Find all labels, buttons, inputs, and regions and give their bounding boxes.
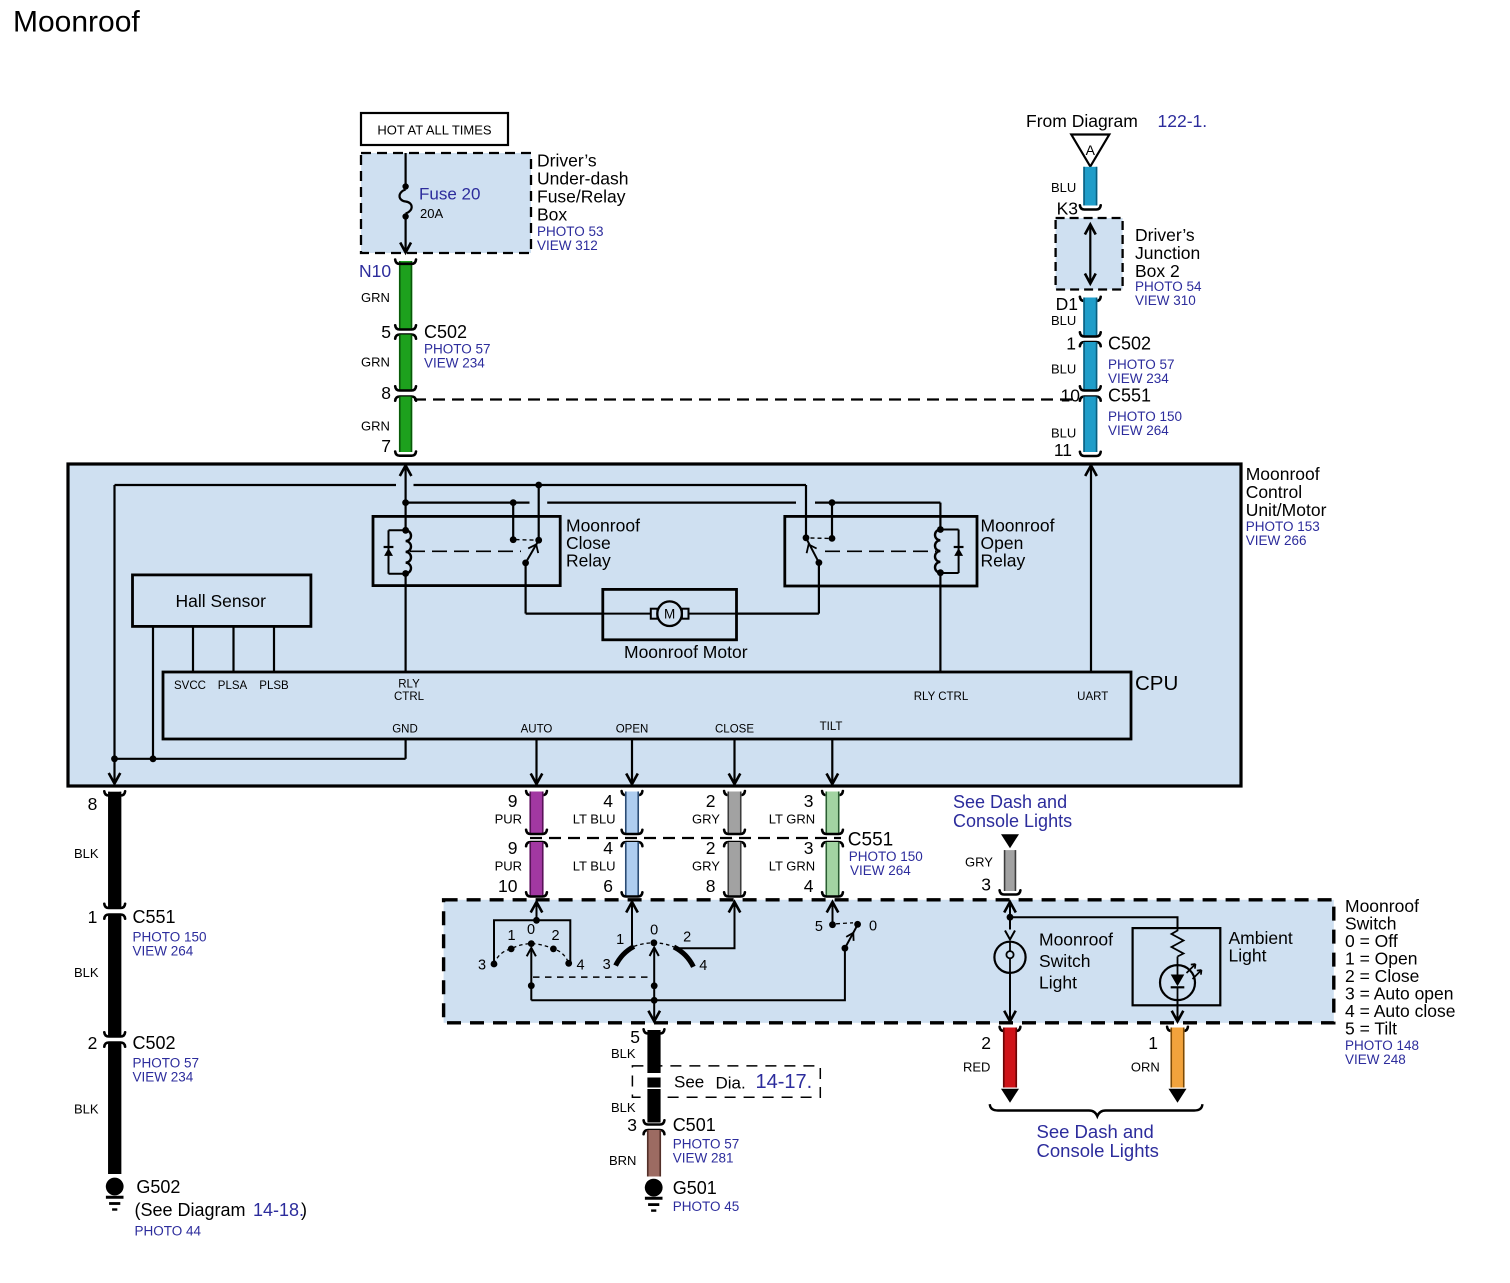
svg-text:BLU: BLU (1051, 362, 1076, 377)
svg-text:Moonroof: Moonroof (1039, 930, 1113, 950)
svg-text:8: 8 (88, 794, 98, 814)
svg-text:VIEW 234: VIEW 234 (133, 1070, 194, 1085)
svg-text:PUR: PUR (495, 812, 522, 827)
Ambient Light label (1229, 928, 1293, 966)
ground G502 label (135, 1177, 308, 1239)
svg-text:UART: UART (1077, 691, 1108, 703)
ground G501 (645, 1179, 663, 1197)
close relay mechanical linkage (dashed) (410, 550, 521, 552)
switch TILT arrow (pin 4 entry) (827, 902, 839, 925)
switch light exit wire to pin 2 (1004, 973, 1016, 1021)
svg-text:5 = Tilt: 5 = Tilt (1345, 1019, 1397, 1039)
ground G502 (106, 1178, 124, 1196)
open relay common pole wire (803, 485, 810, 541)
hall sensor SVCC pin wire (192, 626, 194, 672)
svg-text:PHOTO 57: PHOTO 57 (1108, 357, 1175, 372)
svg-text:9: 9 (508, 791, 518, 811)
open relay coil (935, 526, 944, 576)
svg-text:0: 0 (650, 923, 658, 939)
See Dia 14-17 label (674, 1071, 812, 1093)
switch AUTO entry arrow (pin 10 entry) (531, 902, 543, 920)
fuse F20 symbol (400, 153, 412, 253)
svg-text:PHOTO 54: PHOTO 54 (1135, 279, 1202, 294)
hall sensor PLSA pin wire (232, 626, 234, 672)
wire BLK segment below switch (644, 1029, 665, 1073)
svg-text:4: 4 (603, 791, 613, 811)
svg-text:BLK: BLK (611, 1100, 636, 1115)
connector C551 dashed link line to pin 10 (414, 398, 1080, 400)
wire GRN segment 8-7 (395, 397, 416, 456)
node: close relay NO tap on wire B (510, 499, 517, 506)
svg-text:OPEN: OPEN (616, 724, 649, 736)
svg-text:C551: C551 (133, 907, 176, 927)
svg-text:Unit/Motor: Unit/Motor (1246, 500, 1327, 520)
wire from open relay blade to motor (737, 563, 819, 614)
ambient light emission arrows (1187, 964, 1202, 979)
svg-text:BRN: BRN (609, 1153, 636, 1168)
Moonroof Control Unit/Motor box (68, 464, 1241, 786)
svg-text:4: 4 (699, 958, 707, 974)
open relay NO contact wire (829, 503, 836, 542)
svg-text:C502: C502 (1108, 334, 1151, 354)
wire GRY (switch light feed) (1000, 850, 1021, 894)
svg-text:): ) (301, 1200, 307, 1220)
svg-text:Relay: Relay (566, 551, 611, 571)
wire BLK segment 2-G502 (108, 1043, 121, 1175)
svg-text:RLY CTRL: RLY CTRL (914, 691, 969, 703)
svg-text:Moonroof: Moonroof (1246, 464, 1320, 484)
wire BLU from triangle to K3 (1080, 167, 1101, 210)
svg-text:N10: N10 (359, 261, 391, 281)
svg-text:Fuse/Relay: Fuse/Relay (537, 187, 626, 207)
svg-text:14-18.: 14-18. (253, 1200, 304, 1220)
svg-text:6: 6 (603, 876, 613, 896)
switch CLOSE wire to pin 8 entry (674, 902, 740, 948)
svg-text:Box: Box (537, 205, 567, 225)
wire BLK segment 1-2 (104, 915, 125, 1037)
svg-text:VIEW 312: VIEW 312 (537, 238, 598, 253)
wire B power feed (horizontal) (406, 502, 941, 504)
svg-text:1: 1 (616, 932, 624, 948)
brace (see dash and console lights) (990, 1104, 1203, 1116)
node: wire B tap at pin7 (402, 499, 409, 506)
wire GRN from fuse box to pin 7 (segment N10-5) (395, 260, 416, 330)
LT GRN wire (TILT) upper segment pin 3 (822, 791, 843, 834)
svg-text:PLSA: PLSA (218, 680, 248, 692)
LT BLU wire (OPEN) lower segment pin 4-6 (622, 842, 643, 897)
svg-text:5: 5 (815, 919, 823, 935)
svg-text:VIEW 264: VIEW 264 (1108, 423, 1169, 438)
svg-text:VIEW 248: VIEW 248 (1345, 1052, 1406, 1067)
svg-text:4: 4 (804, 876, 814, 896)
fuse box name label (537, 151, 628, 254)
close relay NO contact wire (510, 503, 517, 543)
Moonroof Open Relay label (981, 516, 1055, 571)
svg-text:GRN: GRN (361, 419, 390, 434)
connector C551 in-line dashed line (4 wires) (530, 837, 841, 839)
svg-text:122-1.: 122-1. (1158, 111, 1208, 131)
svg-text:From Diagram: From Diagram (1026, 111, 1138, 131)
open relay diode (940, 530, 963, 574)
switch TILT rest link (dashed) (836, 923, 853, 924)
switch common rail to AUTO wiper (531, 999, 654, 1001)
TILT wire to pin 3 (827, 739, 839, 784)
svg-text:See Dash and: See Dash and (953, 792, 1067, 812)
svg-text:GRN: GRN (361, 290, 390, 305)
svg-text:VIEW 264: VIEW 264 (133, 944, 194, 959)
wire from close relay blade to motor (526, 563, 603, 614)
switch OPEN/CLOSE wiper arm to pin 5 exit (648, 948, 660, 1022)
svg-text:20A: 20A (420, 206, 443, 221)
svg-text:VIEW 264: VIEW 264 (850, 863, 911, 878)
See Dash and Console Lights label (bottom) (1037, 1121, 1159, 1161)
svg-text:3: 3 (804, 791, 814, 811)
svg-text:Junction: Junction (1135, 243, 1200, 263)
LT GRN wire (TILT) lower segment pin 3-4 (822, 842, 843, 897)
branch wire to ambient light (1010, 917, 1178, 929)
svg-text:PHOTO 153: PHOTO 153 (1246, 519, 1320, 534)
svg-text:9: 9 (508, 838, 518, 858)
AUTO wire to pin 9 (531, 739, 543, 784)
svg-text:PUR: PUR (495, 859, 522, 874)
svg-text:TILT: TILT (820, 721, 843, 733)
open relay RLY CTRL wire to CPU (939, 573, 941, 672)
svg-text:2: 2 (88, 1033, 98, 1053)
svg-text:LT BLU: LT BLU (573, 859, 616, 874)
svg-text:Under-dash: Under-dash (537, 169, 628, 189)
switch TILT common wire (654, 948, 845, 1000)
ambient light exit wire to pin 1 (1172, 1000, 1184, 1021)
svg-text:3: 3 (981, 875, 991, 895)
svg-text:Light: Light (1229, 946, 1267, 966)
node: switch light / ambient branch (1007, 914, 1014, 921)
svg-text:C502: C502 (133, 1033, 176, 1053)
svg-text:8: 8 (381, 383, 391, 403)
svg-text:C551: C551 (1108, 386, 1151, 406)
svg-text:14-17.: 14-17. (756, 1071, 813, 1093)
svg-text:(See Diagram: (See Diagram (135, 1200, 246, 1220)
svg-text:K3: K3 (1057, 199, 1078, 219)
PUR wire (AUTO) upper segment pin 9 (526, 791, 547, 834)
wire RED to dash lights (1000, 1027, 1021, 1103)
Moonroof Switch legend (1345, 896, 1455, 1067)
open relay blade alternate position (dashed) (811, 537, 830, 539)
close relay coil (402, 527, 411, 577)
close relay RLY CTRL wire to CPU (405, 574, 407, 673)
svg-text:Control: Control (1246, 482, 1302, 502)
off-page triangle connector A (1071, 135, 1109, 167)
svg-text:Console Lights: Console Lights (1037, 1140, 1159, 1161)
wire BLU segment 1-10 (1080, 342, 1101, 391)
svg-text:C502: C502 (424, 322, 467, 342)
open relay blade (switch) (806, 538, 822, 566)
svg-text:Moonroof: Moonroof (13, 6, 140, 39)
connector C502 (green wire) (395, 322, 490, 371)
svg-text:BLK: BLK (611, 1046, 636, 1061)
switch OPEN/CLOSE contact labels (603, 923, 708, 975)
svg-text:8: 8 (706, 876, 716, 896)
svg-text:4: 4 (603, 838, 613, 858)
From Diagram 122-1 label (1026, 111, 1207, 131)
hall sensor ground pin wire (152, 626, 154, 758)
svg-text:7: 7 (381, 436, 391, 456)
svg-text:BLU: BLU (1051, 426, 1076, 441)
connector C501 (644, 1115, 740, 1166)
switch OPEN/CLOSE contact 0 dot (651, 939, 658, 946)
Hall Sensor box (133, 575, 311, 627)
wire BRN segment C501-G501 (647, 1130, 661, 1177)
open relay mechanical linkage (dashed) (825, 550, 936, 552)
svg-text:ORN: ORN (1131, 1060, 1160, 1075)
Moonroof Open Relay box (785, 516, 977, 586)
svg-text:LT BLU: LT BLU (573, 812, 616, 827)
switch OPEN thick contact arc (616, 946, 634, 965)
svg-text:VIEW 234: VIEW 234 (424, 356, 485, 371)
Moonroof Motor box (603, 589, 737, 639)
svg-text:GRN: GRN (361, 355, 390, 370)
svg-text:2: 2 (981, 1033, 991, 1053)
svg-text:2: 2 (551, 928, 559, 944)
svg-text:CTRL: CTRL (394, 691, 425, 703)
svg-text:GRY: GRY (692, 812, 720, 827)
switch AUTO bracket (contacts 3-4 common) (494, 917, 570, 964)
svg-text:RED: RED (963, 1060, 990, 1075)
svg-text:Box 2: Box 2 (1135, 261, 1180, 281)
switch mechanical linkage (dashed) (533, 976, 650, 978)
svg-text:LT GRN: LT GRN (769, 812, 815, 827)
svg-text:3: 3 (603, 957, 611, 973)
switch OPEN arrow (pin 6 entry) (626, 902, 638, 947)
svg-text:0: 0 (527, 922, 535, 938)
svg-text:G502: G502 (136, 1177, 180, 1197)
svg-text:3: 3 (627, 1115, 637, 1135)
svg-text:CLOSE: CLOSE (715, 724, 754, 736)
svg-text:Relay: Relay (981, 551, 1026, 571)
wire A ground rail (horizontal) (115, 484, 807, 486)
svg-text:Driver’s: Driver’s (537, 151, 597, 171)
svg-text:BLK: BLK (74, 846, 99, 861)
wire BLK segment 8-1 (104, 791, 125, 908)
svg-text:10: 10 (498, 876, 518, 896)
svg-text:2: 2 (706, 838, 716, 858)
svg-text:Fuse 20: Fuse 20 (419, 185, 480, 204)
Moonroof Control Unit/Motor name label (1246, 464, 1327, 548)
svg-text:Console Lights: Console Lights (953, 811, 1072, 831)
svg-text:CPU: CPU (1135, 672, 1178, 695)
svg-text:VIEW 266: VIEW 266 (1246, 533, 1307, 548)
CPU pin labels top (174, 679, 1108, 704)
svg-text:1: 1 (88, 907, 98, 927)
motor M symbol (603, 601, 737, 626)
wire BLK splice segment (647, 1078, 660, 1088)
svg-text:D1: D1 (1056, 294, 1078, 314)
node: open relay NO tap on wire B (829, 499, 836, 506)
svg-text:Moonroof Motor: Moonroof Motor (624, 642, 748, 662)
PUR wire (AUTO) lower segment pin 9-10 (526, 842, 547, 897)
See Dash and Console Lights label (top) (953, 792, 1072, 831)
node: close relay common tap on wire A (535, 482, 542, 489)
switch TILT contact labels (815, 919, 877, 936)
Moonroof Switch box (dashed) (444, 900, 1334, 1023)
switch AUTO wiper arc (dashed) (494, 944, 569, 964)
svg-text:3: 3 (804, 838, 814, 858)
Moonroof Switch Light bulb (994, 917, 1025, 973)
pin 8 exit wire with arrow (109, 759, 121, 784)
connector C551 (blue wire) (1080, 386, 1182, 439)
svg-text:11: 11 (1054, 440, 1072, 460)
junction box internal double-arrow wire (1085, 225, 1096, 284)
svg-text:C551: C551 (848, 830, 893, 851)
svg-text:Light: Light (1039, 973, 1077, 993)
switch OPEN/CLOSE wiper arc (dashed) (634, 943, 674, 947)
svg-text:5: 5 (381, 322, 391, 342)
GRY wire (CLOSE) upper segment pin 2 (724, 791, 745, 834)
svg-text:GRY: GRY (692, 859, 720, 874)
svg-text:C501: C501 (673, 1115, 716, 1135)
switch AUTO wiper arm (527, 948, 536, 1001)
svg-text:PHOTO 53: PHOTO 53 (537, 224, 604, 239)
svg-text:1: 1 (1148, 1033, 1158, 1053)
svg-text:PHOTO 57: PHOTO 57 (673, 1137, 740, 1152)
svg-text:PHOTO 150: PHOTO 150 (1108, 409, 1182, 424)
wire BLK segment to C501 (644, 1089, 665, 1125)
svg-text:BLU: BLU (1051, 180, 1076, 195)
switch AUTO contact labels (478, 922, 585, 974)
svg-text:See: See (674, 1073, 704, 1092)
pin 7 entry wire with arrow (400, 466, 412, 531)
switch light entry arrow (pin 3) (1004, 902, 1016, 917)
svg-text:HOT AT ALL TIMES: HOT AT ALL TIMES (377, 123, 491, 138)
svg-text:BLK: BLK (74, 965, 99, 980)
Driver's Under-dash Fuse/Relay Box (dashed) (361, 153, 531, 253)
svg-text:1: 1 (1066, 334, 1076, 354)
LT BLU wire (OPEN) upper segment pin 4 (622, 791, 643, 834)
wire BLU segment D1-1 (1080, 297, 1101, 337)
GRY wire (CLOSE) lower segment pin 2-8 (724, 842, 745, 897)
svg-text:AUTO: AUTO (521, 724, 553, 736)
CLOSE wire to pin 2 (729, 739, 741, 784)
connector C502 (left BLK) (104, 1033, 199, 1085)
svg-text:PHOTO 57: PHOTO 57 (424, 342, 491, 357)
Ambient Light box (1133, 928, 1221, 1005)
close relay common pole wire (538, 485, 540, 540)
hall sensor PLSB pin wire (273, 626, 275, 672)
svg-text:VIEW 281: VIEW 281 (673, 1151, 734, 1166)
junction box name label (1135, 225, 1202, 308)
connector C551 label block (848, 830, 923, 879)
ambient light LED (1160, 957, 1195, 1001)
svg-text:2: 2 (683, 930, 691, 946)
svg-text:LT GRN: LT GRN (769, 859, 815, 874)
wire A left vertical branch (113, 485, 115, 759)
svg-text:VIEW 310: VIEW 310 (1135, 293, 1196, 308)
svg-text:Switch: Switch (1039, 951, 1091, 971)
close relay blade (switch) (522, 540, 539, 566)
wire BLU segment 10-11 (1080, 397, 1101, 457)
GND wire routing (115, 739, 406, 759)
svg-text:PHOTO 150: PHOTO 150 (849, 849, 923, 864)
svg-text:GND: GND (392, 724, 418, 736)
node: GND rail to pin 8 exit (111, 755, 118, 762)
svg-text:A: A (1086, 142, 1096, 158)
svg-text:PHOTO 148: PHOTO 148 (1345, 1038, 1419, 1053)
OPEN wire to pin 4 (626, 739, 638, 784)
svg-text:M: M (664, 607, 675, 622)
svg-text:PHOTO 45: PHOTO 45 (673, 1199, 740, 1214)
See Dia 14-17 reference box (dashed) (632, 1066, 820, 1097)
svg-text:PHOTO 44: PHOTO 44 (135, 1224, 202, 1239)
svg-text:PLSB: PLSB (259, 680, 289, 692)
svg-text:See Dash and: See Dash and (1037, 1121, 1154, 1142)
close relay diode (384, 530, 406, 574)
ambient light resistor (1172, 929, 1184, 957)
svg-text:Hall Sensor: Hall Sensor (176, 591, 267, 611)
switch AUTO contact dots (491, 940, 572, 967)
svg-text:PHOTO 150: PHOTO 150 (133, 930, 207, 945)
UART wire to pin 11 (1085, 466, 1097, 673)
CPU pin labels bottom (392, 721, 842, 736)
svg-text:GRY: GRY (965, 855, 993, 870)
switch TILT contact 5 dot (829, 921, 836, 928)
Driver's Junction Box 2 (dashed) (1056, 218, 1123, 290)
Moonroof Close Relay label (566, 516, 640, 571)
svg-text:BLK: BLK (74, 1102, 99, 1117)
close relay blade alternate position (dashed) (516, 539, 535, 542)
svg-text:SVCC: SVCC (174, 680, 206, 692)
CPU box (163, 672, 1131, 739)
node: hall ground joins GND rail (150, 755, 157, 762)
wire GRN segment 5-8 (395, 335, 416, 391)
svg-text:BLU: BLU (1051, 313, 1076, 328)
label box HOT AT ALL TIMES (361, 113, 508, 145)
Moonroof Close Relay box (373, 516, 560, 585)
Moonroof Switch Light label (1039, 930, 1113, 993)
svg-text:5: 5 (630, 1027, 640, 1047)
switch TILT blade (842, 927, 857, 952)
fuse value label Fuse 20 / 20A (419, 185, 480, 222)
svg-text:RLY: RLY (398, 679, 420, 691)
svg-text:2: 2 (706, 791, 716, 811)
wire ORN to dash lights (1167, 1027, 1188, 1103)
svg-text:PHOTO 57: PHOTO 57 (133, 1056, 200, 1071)
connector C551 (left BLK) (104, 907, 206, 959)
switch TILT contact 0 dot (854, 921, 861, 928)
svg-text:3: 3 (478, 958, 486, 974)
svg-text:VIEW 234: VIEW 234 (1108, 371, 1169, 386)
open relay feed corner from wire B to coil (939, 503, 941, 530)
svg-text:Dia.: Dia. (716, 1074, 746, 1093)
connector C502 (blue wire) (1080, 334, 1175, 387)
switch CLOSE thick contact arc (674, 947, 694, 967)
svg-text:10: 10 (1061, 386, 1081, 406)
svg-text:4: 4 (576, 958, 584, 974)
incoming GRY arrow triangle (1001, 834, 1019, 848)
svg-text:0: 0 (869, 919, 877, 935)
svg-text:G501: G501 (673, 1178, 717, 1198)
svg-text:Driver’s: Driver’s (1135, 225, 1195, 245)
ground G501 label (673, 1178, 740, 1214)
svg-text:1: 1 (507, 928, 515, 944)
